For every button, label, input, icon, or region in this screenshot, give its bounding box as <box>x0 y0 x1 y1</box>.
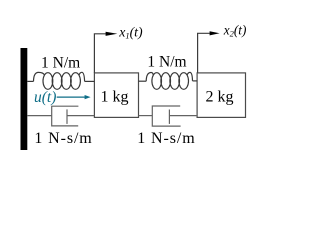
svg-text:2 kg: 2 kg <box>206 88 234 105</box>
svg-text:1 N-s/m: 1 N-s/m <box>137 130 195 147</box>
wall <box>21 48 28 150</box>
svg-text:1 N/m: 1 N/m <box>147 53 186 70</box>
spring K2 entry arc <box>146 73 153 82</box>
spring K2 wire right <box>193 80 198 82</box>
svg-text:x1(t): x1(t) <box>118 24 143 40</box>
svg-text:1 N/m: 1 N/m <box>41 54 80 71</box>
displacement x1 arrow <box>94 34 105 73</box>
mass M1 box (1 kg) <box>94 73 138 118</box>
spring K1 entry arc <box>34 72 45 81</box>
damper B1 piston <box>66 109 68 124</box>
svg-text:1 kg: 1 kg <box>101 88 129 105</box>
svg-text:x2(t): x2(t) <box>223 22 247 38</box>
spring K2 coils <box>152 73 162 90</box>
damper B2 piston <box>168 110 170 124</box>
damper B2 cylinder <box>152 106 180 126</box>
svg-text:u(t): u(t) <box>34 89 56 106</box>
svg-text:1 N-s/m: 1 N-s/m <box>34 130 92 147</box>
spring K2 exit arc <box>187 72 192 81</box>
input force arrow <box>57 96 85 98</box>
spring K1 coils <box>43 73 53 90</box>
damper B1 cylinder <box>52 106 79 126</box>
damper B2 rod <box>169 115 197 117</box>
damper B1 rod <box>67 115 94 117</box>
mass M2 box (2 kg) <box>197 73 245 118</box>
spring K2 wire left <box>139 80 147 82</box>
spring K1 wire left <box>27 80 33 82</box>
displacement x2 arrow <box>198 33 210 73</box>
spring K1 wire right <box>85 80 95 82</box>
spring K1 exit arc <box>79 72 85 81</box>
damper B1 wire left <box>27 115 51 117</box>
damper B2 wire left <box>139 115 153 117</box>
